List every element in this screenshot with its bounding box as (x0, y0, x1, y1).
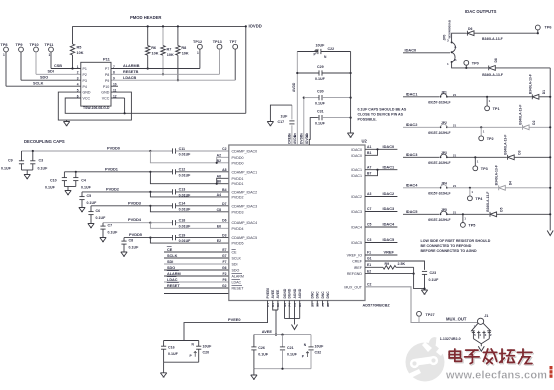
capacitor C32 10UF polarized (310, 335, 312, 347)
svg-text:D6: D6 (222, 219, 226, 223)
svg-text:B1: B1 (367, 151, 371, 155)
svg-text:10K: 10K (77, 51, 84, 55)
svg-text:IDAC2: IDAC2 (406, 122, 419, 127)
svg-text:P8: P8 (105, 73, 109, 77)
svg-text:1UF: 1UF (281, 114, 289, 118)
svg-text:C29: C29 (317, 65, 324, 69)
test point TP11 (49, 47, 54, 52)
svg-text:IDAC1: IDAC1 (351, 174, 362, 178)
svg-text:TP7: TP7 (230, 40, 237, 44)
svg-text:8: 8 (113, 71, 115, 75)
svg-text:C14: C14 (179, 202, 186, 206)
svg-text:C17: C17 (278, 120, 285, 124)
ground arrow J1 shield (478, 346, 484, 351)
svg-text:SCLK: SCLK (167, 254, 178, 258)
wire SDO signal net (164, 269, 229, 271)
svg-text:D8: D8 (494, 58, 498, 62)
wire VCC pin12 drop (111, 97, 125, 99)
svg-text:PVDD5: PVDD5 (232, 242, 244, 246)
svg-text:IDAC3: IDAC3 (383, 206, 396, 211)
svg-text:DNC: DNC (310, 291, 314, 299)
svg-text:2: 2 (77, 71, 79, 75)
svg-text:C11: C11 (179, 147, 185, 151)
resistor R9 2.5K on IREF (365, 266, 383, 268)
wire PVDD feed drop for C11 group (150, 151, 216, 163)
svg-text:CE: CE (232, 251, 238, 255)
wire PVDD feed drop for C18 group (150, 223, 228, 229)
test point TP3 (474, 156, 476, 158)
chip U2 right pin IDAC3 (365, 211, 397, 213)
svg-text:MUX_OUT: MUX_OUT (344, 285, 362, 289)
svg-text:A2: A2 (217, 153, 221, 157)
capacitor C4 0.1UF (75, 171, 77, 173)
test point TP0 (464, 60, 469, 65)
svg-text:IREF: IREF (354, 266, 363, 270)
capacitor C26 0.1UF (253, 335, 255, 347)
svg-text:P2: P2 (83, 73, 87, 77)
svg-text:B340LA-13-F: B340LA-13-F (482, 73, 503, 77)
svg-text:SCLK: SCLK (33, 82, 44, 86)
diode D2 B340LA-13-F (523, 125, 530, 130)
svg-text:10K: 10K (152, 52, 159, 56)
svg-text:ALARM: ALARM (167, 272, 181, 276)
svg-text:PVDD0: PVDD0 (232, 156, 244, 160)
wire SDI net (36, 73, 81, 75)
ground symbol C8 (121, 252, 127, 256)
svg-text:CE: CE (167, 248, 173, 252)
svg-text:F2: F2 (223, 272, 227, 276)
svg-text:G7: G7 (222, 254, 227, 258)
watermark chinese brand text (450, 350, 462, 362)
capacitor C17 1UF on CREG (289, 120, 294, 122)
chip U2 right pin CREF wire to C23 (365, 261, 425, 270)
svg-text:C13: C13 (179, 188, 186, 192)
wire IOVDD top rail (73, 25, 246, 27)
wire IDAC1 channel row (403, 96, 439, 98)
svg-text:E6: E6 (217, 224, 221, 228)
capacitor C22 10UF polarized AVDD bulk (297, 51, 318, 53)
wire PVDD0 net (22, 150, 151, 152)
svg-text:B340LA-13-F: B340LA-13-F (528, 74, 532, 94)
wire PVDD feed drop for C19 group (150, 238, 228, 244)
svg-text:C26: C26 (258, 346, 265, 350)
capacitor C14 0.01UF series on CDAMP row (149, 205, 151, 207)
svg-text:TP3: TP3 (481, 167, 488, 171)
svg-text:0.1UF: 0.1UF (87, 201, 98, 205)
svg-text:A3: A3 (367, 192, 371, 196)
svg-text:F7: F7 (223, 260, 227, 264)
wire CSB net (51, 68, 81, 70)
capacitor C10 0.1UF (63, 172, 65, 178)
svg-text:J1: J1 (484, 314, 488, 318)
svg-text:SDO: SDO (167, 266, 175, 270)
svg-text:IOVDD: IOVDD (249, 24, 262, 29)
svg-text:JP0: JP0 (442, 34, 446, 40)
svg-text:B2: B2 (217, 159, 221, 163)
svg-text:TP11: TP11 (45, 43, 54, 47)
svg-text:0.1UF: 0.1UF (315, 122, 326, 126)
svg-text:10K: 10K (167, 53, 174, 57)
svg-text:69157-102HLF: 69157-102HLF (428, 218, 450, 222)
svg-text:F1: F1 (367, 251, 371, 255)
svg-text:C4: C4 (81, 179, 86, 183)
chip U2 right pin IDAC5 (365, 242, 397, 244)
svg-text:P11: P11 (103, 57, 111, 62)
capacitor C16 0.1UF PVEE0 box (164, 340, 199, 342)
svg-text:AD5770RBCBZ: AD5770RBCBZ (363, 304, 391, 308)
test point TP27 (417, 311, 422, 316)
svg-text:TP4: TP4 (475, 197, 483, 201)
svg-text:JP4: JP4 (441, 182, 447, 186)
capacitor C21 0.1UF (281, 334, 283, 336)
svg-text:ALARM: ALARM (232, 275, 244, 279)
svg-text:IDAC5: IDAC5 (406, 209, 419, 214)
svg-text:C16: C16 (168, 345, 175, 349)
svg-text:P1: P1 (83, 67, 87, 71)
svg-text:C7: C7 (108, 224, 113, 228)
svg-text:R6: R6 (151, 46, 156, 50)
svg-text:PVDD1: PVDD1 (232, 177, 244, 181)
svg-text:C7: C7 (367, 207, 371, 211)
svg-text:IDAC1: IDAC1 (351, 168, 362, 172)
resistor R7 10K (162, 26, 164, 45)
svg-text:CDAMP_IDAC4: CDAMP_IDAC4 (232, 221, 258, 225)
wire IDAC5 channel row (403, 213, 439, 215)
test point TP1 (486, 96, 488, 98)
svg-text:0.1UF: 0.1UF (38, 167, 49, 171)
wire LDACB net (111, 79, 235, 81)
svg-text:C20: C20 (203, 350, 210, 354)
svg-text:C10: C10 (50, 179, 57, 183)
svg-text:U2: U2 (362, 139, 368, 144)
svg-text:PVDD2: PVDD2 (106, 186, 120, 191)
svg-text:0.1UF: 0.1UF (287, 352, 298, 356)
capacitor C12 0.01UF series on CDAMP row (149, 171, 151, 173)
svg-text:C2: C2 (222, 147, 226, 151)
svg-text:10UF: 10UF (316, 43, 326, 47)
svg-text:E5: E5 (293, 133, 297, 137)
svg-text:C5: C5 (367, 223, 371, 227)
wire SDI signal net (164, 263, 229, 265)
wire RESETB net (111, 73, 220, 75)
svg-text:IDAC4: IDAC4 (351, 226, 362, 230)
svg-text:0.1UF: 0.1UF (1, 167, 12, 171)
chip U2 top pin DVDD with rail (303, 98, 305, 145)
svg-text:PVDD0: PVDD0 (107, 146, 120, 151)
svg-text:9: 9 (113, 77, 115, 81)
svg-text:0.1UF: 0.1UF (108, 230, 119, 234)
wire REFGND to C23 ground (414, 274, 425, 289)
svg-text:JP1: JP1 (441, 91, 447, 95)
connector J1 1-13274R2-0 coax (478, 318, 484, 324)
svg-text:B4: B4 (222, 188, 226, 192)
wire AVDD cluster right rail (350, 52, 352, 134)
svg-text:JP3: JP3 (441, 151, 447, 155)
svg-text:G1: G1 (367, 257, 372, 261)
svg-text:PVDD5: PVDD5 (129, 232, 143, 237)
svg-text:69157-102HLF: 69157-102HLF (428, 161, 450, 165)
svg-text:D2: D2 (532, 120, 536, 124)
diode D0 B340LA-13-F on JP0 B branch (489, 66, 496, 71)
wire JP0 pin A branch up (452, 33, 467, 42)
svg-text:E2: E2 (217, 239, 221, 243)
svg-text:GND: GND (101, 91, 109, 95)
wire ALARM signal net (164, 275, 229, 277)
svg-text:PVDD4: PVDD4 (128, 217, 142, 222)
svg-text:POSSIBLE.: POSSIBLE. (358, 118, 377, 122)
svg-text:C8: C8 (217, 208, 221, 212)
wire GND loop (58, 92, 131, 120)
svg-text:D3: D3 (517, 150, 521, 154)
svg-text:TP5: TP5 (468, 223, 475, 227)
svg-text:AGND: AGND (293, 288, 297, 298)
svg-text:0.1UF: 0.1UF (168, 352, 179, 356)
chip U2 right pin IDAC4 (365, 226, 397, 228)
svg-text:B6: B6 (217, 180, 221, 184)
svg-text:B7: B7 (367, 171, 371, 175)
svg-text:CLOSE TO DEVICE PIN AS: CLOSE TO DEVICE PIN AS (358, 113, 404, 117)
svg-text:AVEE: AVEE (262, 329, 273, 334)
diode D3 B340LA-13-F (508, 155, 515, 160)
svg-text:E7: E7 (222, 248, 226, 252)
svg-text:F5: F5 (300, 133, 304, 137)
svg-text:VREF: VREF (384, 250, 395, 255)
svg-text:TP0: TP0 (472, 62, 479, 66)
ground symbol P11 GND (66, 120, 68, 121)
ground symbol C23 (421, 290, 427, 294)
svg-text:0.1UF: 0.1UF (429, 278, 440, 282)
capacitor C6 0.1UF (90, 206, 92, 212)
capacitor C30 0.1UF (303, 97, 305, 99)
svg-text:1: 1 (77, 65, 79, 69)
diode D4 B340LA-13-F (499, 185, 506, 190)
capacitor C5 0.1UF (81, 192, 83, 197)
ground symbol C17 (267, 122, 273, 126)
chip U2 right pin VREF_IO with VREF net label (365, 254, 397, 256)
test point TP10 (34, 47, 39, 52)
svg-text:B340LA-13-F: B340LA-13-F (519, 105, 523, 125)
svg-text:DGND: DGND (283, 288, 287, 298)
svg-text:DECOUPLING CAPS: DECOUPLING CAPS (24, 139, 65, 144)
svg-text:VCC: VCC (83, 97, 91, 101)
svg-text:SDO: SDO (40, 76, 48, 80)
svg-text:B340LA-13-F: B340LA-13-F (486, 192, 490, 212)
capacitor C29 0.1UF (296, 72, 298, 74)
svg-text:7: 7 (113, 65, 115, 69)
connector J1 shield pin 3 (483, 331, 485, 339)
P11 pin stubs right 7-9 to nets (110, 68, 112, 70)
svg-text:0.1UF: 0.1UF (315, 102, 326, 106)
jumper JP3 69157-102HLF (441, 154, 447, 157)
svg-text:0.1UF: 0.1UF (129, 245, 140, 249)
svg-text:IDAC OUTPUTS: IDAC OUTPUTS (465, 9, 497, 14)
test point TP4 (469, 187, 471, 189)
svg-text:TP9: TP9 (16, 43, 23, 47)
svg-text:3: 3 (77, 77, 79, 81)
test point TP13 (217, 44, 222, 49)
connector J1 shield pin 5 (472, 331, 474, 339)
jumper JP2 69157-102HLF (441, 124, 447, 127)
ground symbol C16/C20 box (163, 362, 165, 373)
svg-text:LOW SIDE OF RSET RESISTOR SHOU: LOW SIDE OF RSET RESISTOR SHOULD (421, 239, 491, 243)
svg-text:IDAC2: IDAC2 (351, 195, 362, 199)
svg-text:TP2: TP2 (487, 137, 494, 141)
svg-text:C9: C9 (8, 159, 13, 163)
wire P4 stub (111, 85, 118, 87)
wire channel shared rail (549, 68, 551, 231)
svg-text:B340LA-13-F: B340LA-13-F (482, 37, 503, 41)
connector P11 PMOD header body (81, 62, 111, 106)
svg-text:PVDD3: PVDD3 (128, 200, 142, 205)
wire IDAC4 channel row (403, 187, 439, 189)
svg-text:DGND: DGND (288, 288, 292, 298)
svg-text:CDAMP_IDAC3: CDAMP_IDAC3 (232, 204, 258, 208)
svg-text:PVDD0: PVDD0 (232, 161, 244, 165)
wire PVDD2 net (82, 191, 150, 193)
wire PVDD feed drop for C12 group (150, 172, 216, 184)
svg-text:AVDD: AVDD (292, 82, 296, 92)
wire PVDD5 net (124, 237, 150, 239)
svg-text:P7: P7 (105, 67, 109, 71)
test point TP12 (198, 44, 203, 49)
test point TP8 (4, 47, 9, 52)
svg-text:10UF: 10UF (203, 344, 213, 348)
svg-text:SCLK: SCLK (232, 257, 242, 261)
capacitor C18 0.01UF series on CDAMP row (149, 222, 151, 224)
svg-text:AGND: AGND (298, 288, 302, 298)
svg-text:JP2: JP2 (441, 121, 447, 125)
svg-text:RESET: RESET (232, 287, 245, 291)
svg-text:C5: C5 (87, 194, 92, 198)
svg-text:RESETB: RESETB (123, 70, 139, 74)
svg-text:P9: P9 (105, 79, 109, 83)
svg-text:TP1: TP1 (493, 107, 500, 111)
wire IREF drop to REFGND (413, 267, 415, 273)
svg-text:R5: R5 (77, 46, 82, 50)
svg-text:LDAC: LDAC (167, 278, 178, 282)
ground symbol C10/C4 (64, 186, 75, 188)
svg-text:TSW-106-08-G-D: TSW-106-08-G-D (83, 106, 110, 110)
diode D6 B340LA-13-F (467, 31, 474, 36)
svg-text:C22: C22 (328, 47, 335, 51)
chip U2 right pin IDAC2 (365, 196, 397, 198)
svg-text:PMOD HEADER: PMOD HEADER (130, 15, 161, 20)
svg-text:DNC: DNC (316, 291, 320, 299)
svg-text:C30: C30 (317, 90, 324, 94)
wire PVDD4 net (103, 222, 150, 224)
svg-text:D6: D6 (468, 27, 472, 31)
svg-text:ALARMB: ALARMB (123, 64, 140, 68)
test point TP2 (480, 126, 482, 128)
svg-text:CREF: CREF (352, 260, 363, 264)
wire VCC loop to IOVDD (65, 98, 246, 113)
svg-text:P3: P3 (83, 79, 87, 83)
svg-text:G2: G2 (222, 284, 227, 288)
svg-text:69157-102HLF: 69157-102HLF (428, 131, 450, 135)
chip U2 right pin REFGND (365, 273, 414, 275)
svg-text:SDI: SDI (48, 70, 54, 74)
svg-text:VREF_IO: VREF_IO (347, 254, 363, 258)
svg-text:B340LA-13-F: B340LA-13-F (495, 165, 499, 185)
svg-text:E2: E2 (367, 269, 371, 273)
svg-text:G5: G5 (305, 133, 309, 137)
svg-text:D5: D5 (500, 207, 504, 211)
svg-text:0.01UF: 0.01UF (179, 173, 192, 177)
svg-text:TP10: TP10 (30, 43, 39, 47)
svg-text:CSB: CSB (54, 64, 62, 68)
svg-text:LDAC: LDAC (232, 281, 242, 285)
capacitor C9 0.1UF (21, 151, 23, 161)
svg-text:D1: D1 (542, 90, 546, 94)
svg-text:CDAMP_IDAC5: CDAMP_IDAC5 (232, 236, 258, 240)
svg-text:A6: A6 (217, 174, 221, 178)
capacitor C11 0.01UF series on CDAMP row (149, 150, 151, 152)
svg-text:PVDD1: PVDD1 (105, 166, 119, 171)
wire IDAC0 net into JP0 (403, 52, 450, 54)
svg-text:1-13274R2-0: 1-13274R2-0 (440, 337, 461, 341)
svg-text:P10: P10 (103, 85, 109, 89)
svg-text:C6: C6 (96, 209, 101, 213)
svg-text:69157-102HLF: 69157-102HLF (428, 191, 450, 195)
svg-text:LDACB: LDACB (123, 76, 137, 80)
jumper JP4 69157-102HLF (441, 185, 447, 188)
svg-text:AVEE: AVEE (271, 289, 275, 299)
svg-text:TP13: TP13 (213, 40, 222, 44)
svg-text:C12: C12 (179, 168, 186, 172)
svg-text:W2X49900AB: W2X49900AB (447, 20, 451, 38)
svg-text:10UF: 10UF (315, 345, 325, 349)
svg-text:IDAC3: IDAC3 (351, 210, 362, 214)
wire LDAC signal net (164, 281, 229, 283)
svg-text:C21: C21 (287, 346, 294, 350)
ground symbol AVEE box (253, 369, 255, 375)
wire RESET signal net (164, 287, 229, 289)
capacitor C31 0.1UF (318, 117, 319, 119)
svg-text:10K: 10K (182, 52, 189, 56)
svg-text:1: 1 (197, 51, 199, 55)
svg-text:1: 1 (49, 53, 51, 57)
svg-text:0.01UF: 0.01UF (179, 224, 192, 228)
wire A/B pin bracket (217, 178, 229, 183)
svg-text:4: 4 (77, 83, 79, 87)
test point TP7 (233, 44, 238, 49)
svg-text:CDAMP_IDAC1: CDAMP_IDAC1 (232, 170, 258, 174)
resistor R5 10K pullup on CSB (72, 26, 74, 44)
svg-text:C32: C32 (315, 351, 322, 355)
connector J1 shield pin 4 (478, 331, 480, 339)
svg-text:MUX_OUT: MUX_OUT (446, 317, 467, 322)
svg-text:E1: E1 (367, 263, 371, 267)
svg-text:C18: C18 (179, 219, 186, 223)
svg-text:C3: C3 (367, 238, 371, 242)
svg-text:VCC: VCC (102, 97, 110, 101)
svg-text:R9: R9 (385, 262, 390, 266)
svg-text:BEFORE CONNECTED TO AGND: BEFORE CONNECTED TO AGND (421, 249, 478, 253)
svg-text:0.01UF: 0.01UF (179, 239, 192, 243)
chip U2 top pin IOVDD with rail (309, 118, 318, 145)
test point TP6 (535, 25, 540, 30)
ground symbol C6 (88, 224, 94, 228)
svg-text:IDAC2: IDAC2 (383, 191, 396, 196)
svg-text:TP8: TP8 (1, 43, 8, 47)
svg-text:IDAC0: IDAC0 (351, 154, 362, 158)
wire DGND/AGND join with AGND arrow (285, 318, 300, 320)
wire IDAC3 channel row (403, 156, 439, 158)
wire PVDD1 net (64, 171, 150, 173)
svg-text:DNC: DNC (321, 291, 325, 299)
svg-text:REFGND: REFGND (347, 272, 363, 276)
wire A/B pin bracket (217, 157, 229, 163)
